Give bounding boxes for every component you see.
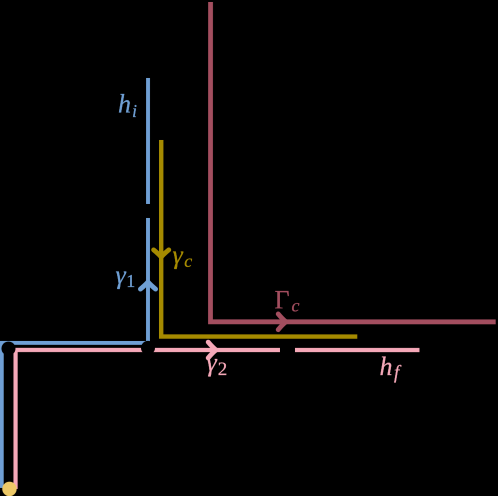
wire contour gamma_2 left part (pink)	[16, 350, 280, 489]
junction node (black dot, center)	[141, 341, 155, 355]
wire contour gamma_1 lower segment (blue)	[2, 218, 148, 488]
branch cut (black line)	[7, 350, 11, 489]
arrowhead wedge on Gamma_c	[281, 317, 287, 326]
wire contour gamma_1 upper segment (blue)	[146, 78, 150, 204]
branch point node (black dot, left)	[1, 342, 15, 356]
wire contour Gamma_c (maroon)	[210, 2, 495, 322]
pole node (gold dot, bottom)	[2, 482, 16, 496]
arrowhead wedge on gamma_c	[157, 253, 166, 258]
arrowhead wedge on gamma_1	[143, 282, 152, 287]
wire contour gamma_c (olive)	[161, 140, 357, 337]
arrowhead wedge on gamma_2	[211, 345, 217, 354]
wire contour gamma_2 right part (pink)	[295, 348, 420, 352]
arrowhead on Gamma_c	[278, 314, 286, 330]
arrowhead on gamma_2 (right)	[208, 342, 216, 358]
arrowhead on gamma_1 (up)	[140, 282, 155, 289]
arrowhead on gamma_c (down)	[154, 250, 169, 257]
